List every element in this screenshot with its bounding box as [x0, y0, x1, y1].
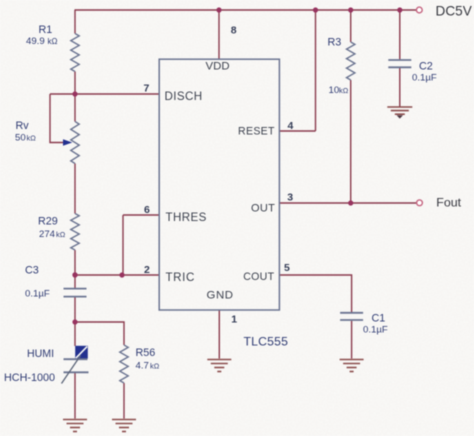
svg-text:COUT: COUT [243, 271, 274, 283]
svg-text:TLC555: TLC555 [244, 335, 289, 349]
svg-text:1: 1 [231, 314, 237, 326]
svg-text:2: 2 [144, 264, 150, 276]
svg-text:kΩ: kΩ [56, 230, 66, 239]
svg-text:TRIC: TRIC [166, 271, 195, 284]
svg-text:6: 6 [144, 204, 150, 216]
svg-text:274: 274 [39, 229, 56, 240]
svg-text:C1: C1 [372, 313, 386, 325]
svg-text:49.9: 49.9 [26, 36, 45, 47]
svg-text:HUMI: HUMI [27, 348, 54, 360]
svg-text:kΩ: kΩ [27, 134, 37, 143]
svg-text:GND: GND [207, 290, 234, 302]
svg-text:0.1µF: 0.1µF [25, 289, 50, 300]
svg-text:5: 5 [284, 262, 290, 274]
svg-text:THRES: THRES [166, 211, 207, 224]
svg-text:OUT: OUT [251, 203, 275, 215]
svg-text:Fout: Fout [436, 196, 461, 210]
svg-text:3: 3 [287, 192, 293, 204]
svg-text:4: 4 [288, 120, 294, 132]
svg-text:kΩ: kΩ [150, 362, 160, 371]
svg-text:8: 8 [231, 25, 237, 37]
svg-text:10: 10 [329, 85, 340, 96]
svg-text:kΩ: kΩ [48, 37, 58, 46]
svg-text:C2: C2 [419, 61, 433, 73]
svg-text:Rv: Rv [16, 120, 30, 132]
svg-text:kΩ: kΩ [339, 86, 349, 95]
svg-text:DC5V: DC5V [436, 4, 472, 19]
svg-text:VDD: VDD [206, 61, 230, 73]
svg-text:HCH-1000: HCH-1000 [4, 372, 55, 384]
svg-text:R3: R3 [328, 37, 342, 49]
svg-text:R29: R29 [38, 216, 58, 228]
svg-text:R56: R56 [136, 347, 156, 359]
svg-text:0.1µF: 0.1µF [412, 73, 437, 84]
svg-text:R1: R1 [39, 24, 53, 36]
svg-text:C3: C3 [25, 265, 39, 277]
svg-text:7: 7 [144, 83, 150, 95]
svg-text:DISCH: DISCH [165, 90, 203, 103]
svg-text:RESET: RESET [238, 126, 275, 138]
svg-text:50: 50 [15, 133, 26, 144]
svg-text:0.1µF: 0.1µF [363, 325, 388, 336]
svg-text:4.7: 4.7 [136, 361, 149, 372]
